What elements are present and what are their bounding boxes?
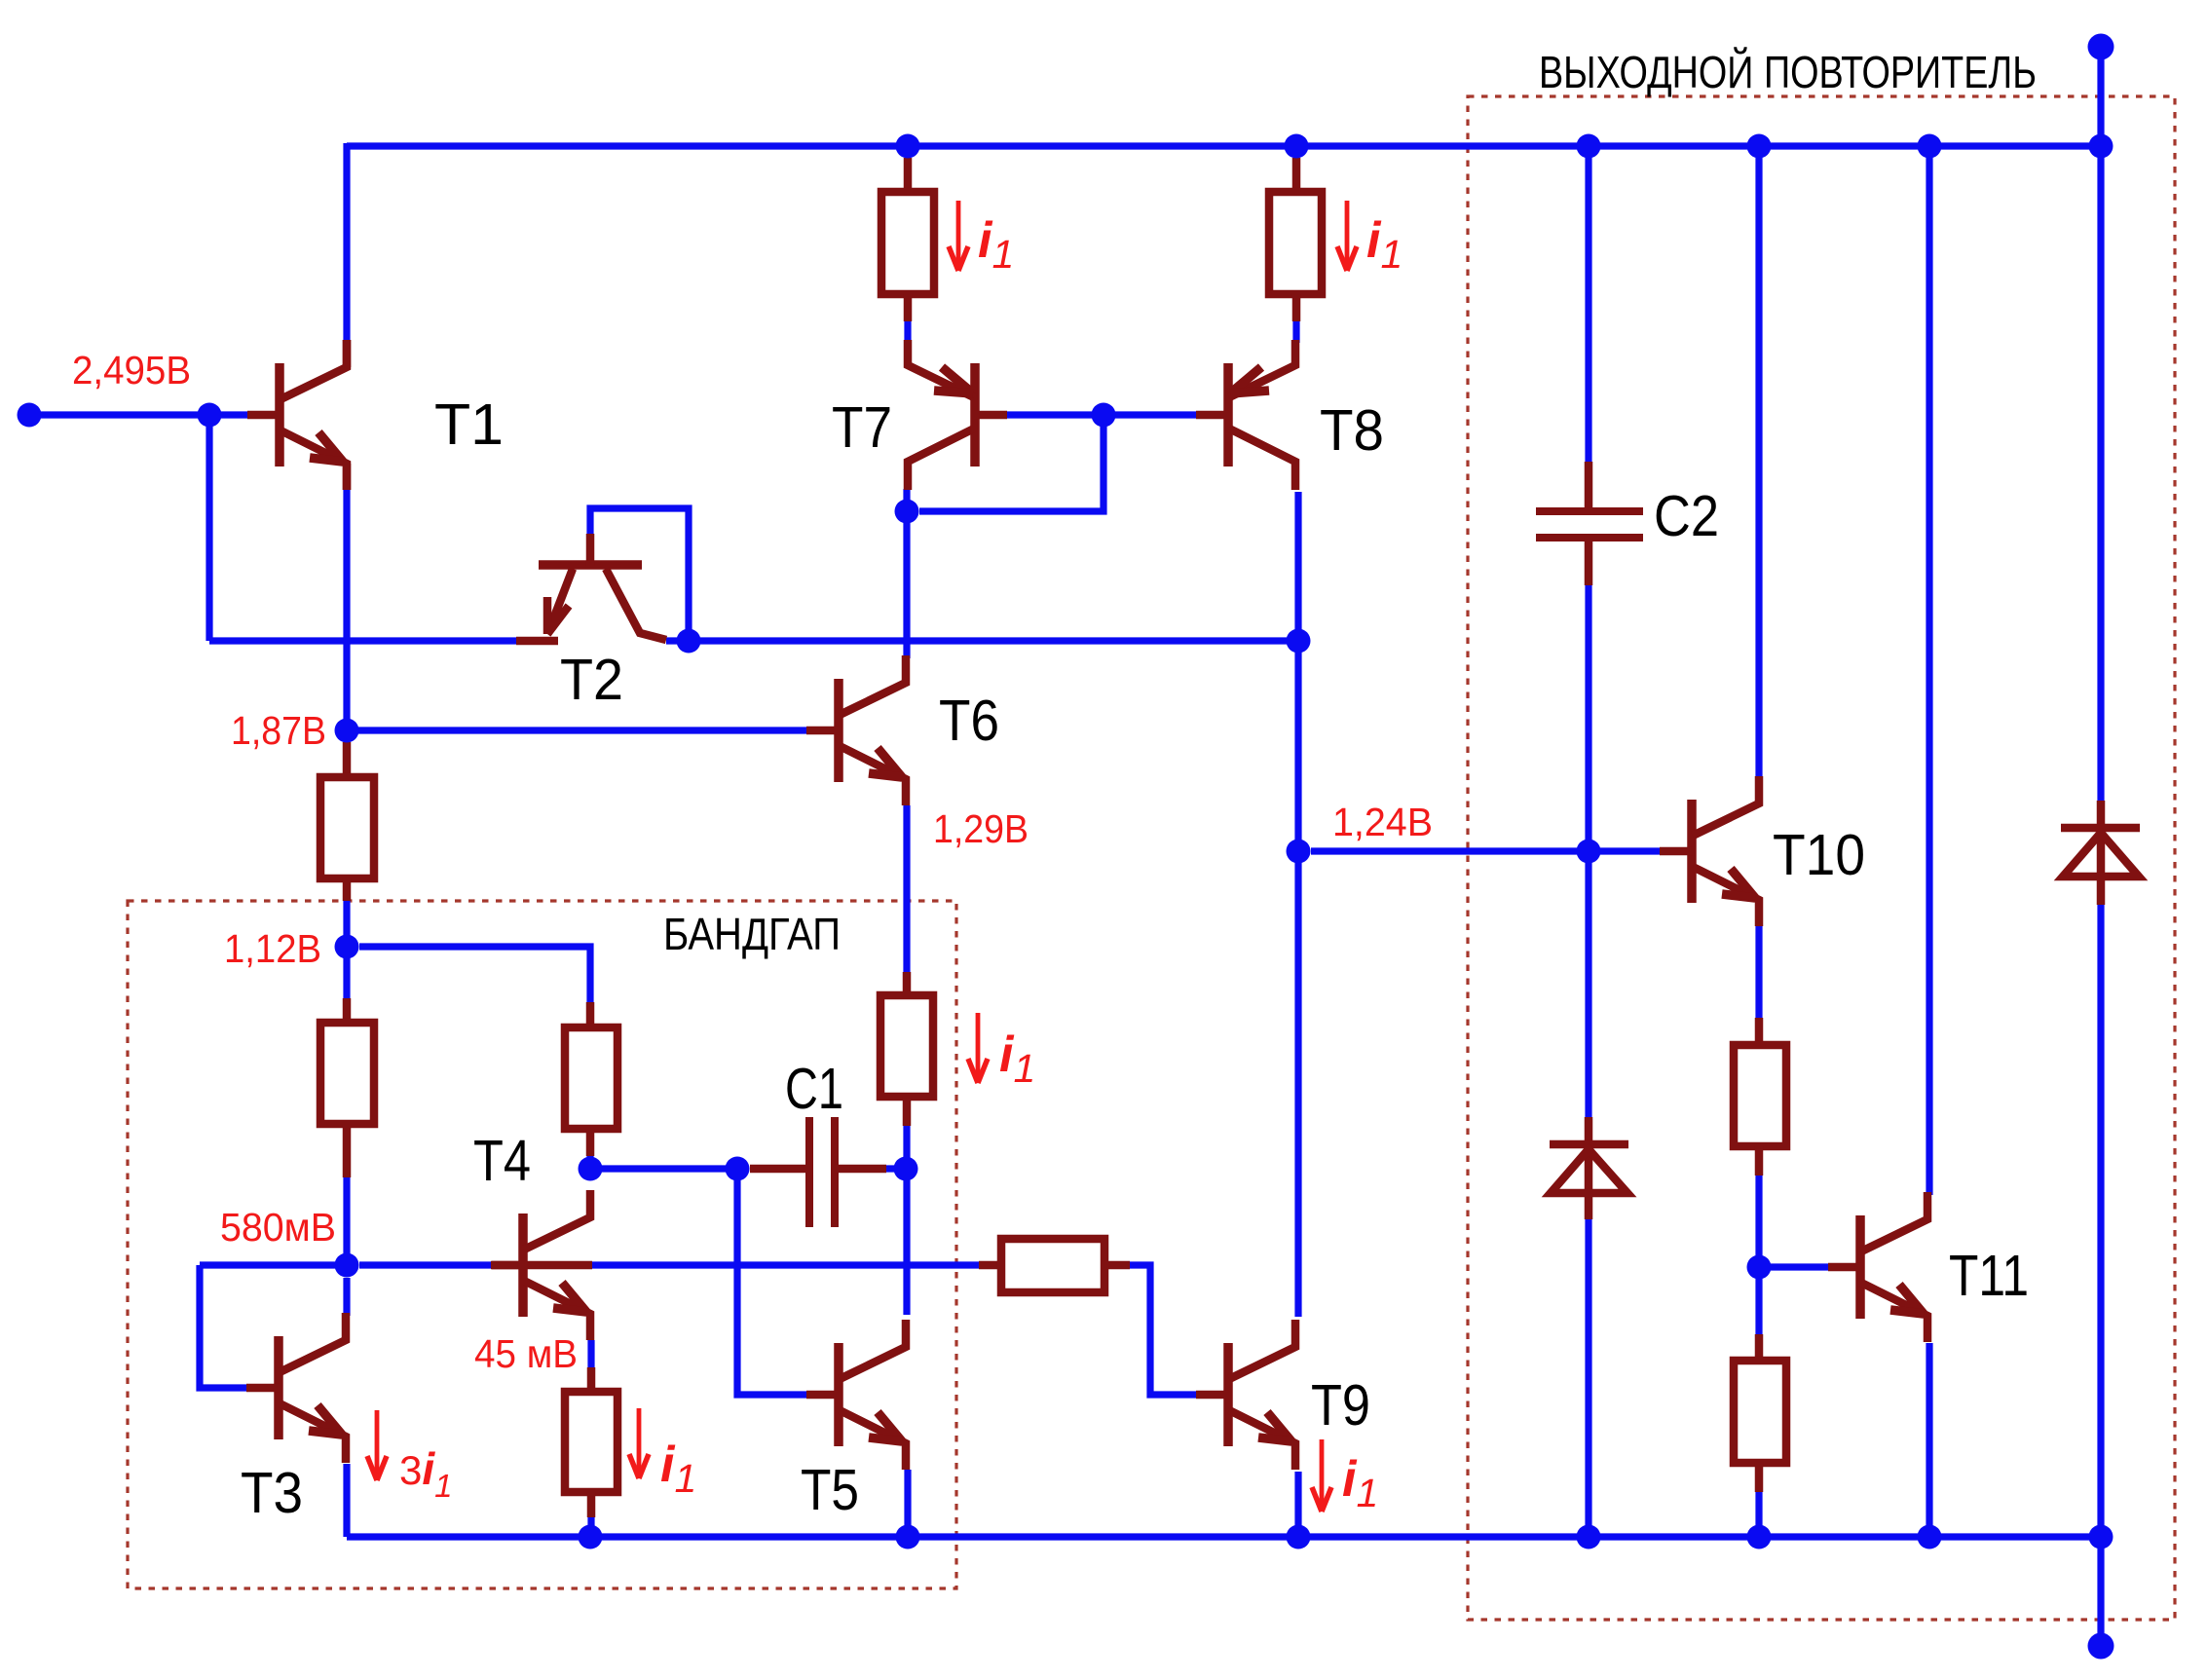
wire C2 branch upper — [1585, 146, 1591, 464]
wire mid rail left — [209, 637, 519, 644]
transistor T1 npn — [247, 340, 347, 490]
svg-text:2,495В: 2,495В — [72, 348, 191, 392]
wire T10 collector riser — [1755, 146, 1762, 778]
svg-text:T8: T8 — [1320, 398, 1384, 463]
wire T11 collector riser — [1926, 146, 1932, 1195]
wire T7 collector to T6 — [903, 511, 910, 658]
resistor R2 — [343, 998, 352, 1023]
transistor T7 pnp — [908, 340, 1007, 490]
wire T11 base node to R10 — [1755, 1267, 1762, 1361]
wire horizontal resistor to T9 base — [1128, 1265, 1196, 1395]
wire bottom rail — [347, 1533, 2101, 1540]
svg-text:ВЫХОДНОЙ ПОВТОРИТЕЛЬ: ВЫХОДНОЙ ПОВТОРИТЕЛЬ — [1539, 47, 2037, 97]
wire T2 bracket — [590, 508, 689, 633]
wire right rail bottom — [2097, 903, 2104, 1646]
wire T3 emitter to bottom rail — [343, 1464, 350, 1537]
svg-text:T4: T4 — [473, 1129, 531, 1193]
wire T5 collector — [903, 1169, 910, 1315]
svg-text:1,87В: 1,87В — [231, 708, 326, 753]
node dot T11 base — [1747, 1255, 1772, 1280]
svg-text:T5: T5 — [801, 1458, 859, 1522]
wire T5 emitter to bottom rail — [904, 1470, 911, 1537]
svg-text:C2: C2 — [1654, 484, 1719, 548]
wire top supply rail — [347, 142, 2101, 149]
node dot bottom rail x1631 — [1577, 1525, 1601, 1549]
node dot C2/1.24V — [1577, 840, 1601, 864]
svg-text:1,24В: 1,24В — [1332, 800, 1433, 844]
svg-text:T3: T3 — [241, 1461, 303, 1525]
node dot top rail x1631 — [1577, 134, 1601, 159]
node dot bottom rail x2157 — [2089, 1525, 2113, 1549]
T1 collector/emitter verticals dark red — [343, 340, 352, 367]
wire T2 emitter lead — [515, 637, 522, 644]
wire T2 to T8 collector node — [666, 637, 1298, 644]
svg-text:C1: C1 — [785, 1057, 843, 1121]
wire 580mV node left — [200, 1261, 347, 1268]
wire T3 base bracket — [200, 1265, 247, 1388]
resistor R5 — [903, 972, 912, 995]
node dot top rail x1806 — [1747, 134, 1772, 159]
wire T4 collector node to C1 node — [590, 1165, 737, 1172]
wire R1 to 1.12V node — [343, 901, 350, 947]
wire T1 emitter to 1.87V node — [343, 488, 350, 730]
wire right rail top — [2097, 47, 2104, 803]
wire base link to diode connection — [919, 415, 1103, 511]
terminal dot top right — [2088, 34, 2114, 60]
T4 base through-bar stub — [492, 1261, 592, 1270]
current arrow i1 at T9 — [1320, 1439, 1325, 1506]
wire T8 node down to 1.24V node — [1294, 641, 1301, 851]
resistor R3 — [586, 1002, 595, 1027]
transistor T6 npn — [806, 655, 906, 805]
wire T4 emitter to R4 — [587, 1340, 594, 1367]
node dot bottom rail x606 — [579, 1525, 603, 1549]
node dot bottom rail x1806 — [1747, 1525, 1772, 1549]
transistor T5 npn — [806, 1320, 906, 1470]
output follower region dashed box — [1468, 96, 2175, 1620]
wire 1.24V to diode D1 — [1585, 851, 1591, 1119]
node dot C1 left — [726, 1157, 750, 1181]
wire input to mid rail riser — [206, 415, 212, 641]
wire T4 to horizontal resistor — [590, 1261, 981, 1268]
svg-text:45 мВ: 45 мВ — [474, 1331, 578, 1376]
wire 1.24V node down to T9 collector — [1294, 851, 1301, 1317]
node dot bottom rail x1981 — [1918, 1525, 1942, 1549]
wire T6 emitter chain — [903, 805, 910, 974]
svg-text:T1: T1 — [434, 392, 504, 457]
wire T8 collector drop — [1294, 492, 1301, 641]
node dot bottom rail x932 — [896, 1525, 920, 1549]
bandgap region dashed box — [128, 901, 956, 1588]
resistor R10 — [1755, 1334, 1764, 1361]
resistor R4 — [587, 1367, 596, 1392]
transistor T3 npn — [246, 1313, 346, 1463]
node dot 1.12V — [335, 935, 359, 959]
node dot top rail x1331 — [1285, 134, 1309, 159]
wire T10 emitter to R9 — [1755, 925, 1762, 1018]
node dot 1.87V — [335, 719, 359, 743]
node dot 580mV — [335, 1253, 359, 1278]
node dot C1 right — [894, 1157, 918, 1181]
wire T7 collector node — [903, 489, 910, 511]
wire T9 emitter to bottom rail — [1294, 1472, 1301, 1537]
wire R3 to T4 collector node — [586, 1154, 593, 1169]
node dot T4 collector — [579, 1157, 603, 1181]
wire 1.87V node to T6 base — [347, 727, 806, 733]
current arrow i1 at R4 — [637, 1408, 642, 1473]
transistor T9 npn — [1196, 1320, 1295, 1470]
transistor T10 npn — [1660, 776, 1759, 926]
svg-text:БАНДГАП: БАНДГАП — [663, 909, 841, 959]
svg-text:T2: T2 — [560, 648, 623, 712]
wire input lead — [29, 411, 247, 418]
wire T11 base node to T11 — [1759, 1263, 1830, 1270]
svg-text:1,12В: 1,12В — [224, 926, 321, 971]
current arrow i1 at R8 — [1345, 201, 1350, 265]
node dot bottom rail x1333 — [1287, 1525, 1311, 1549]
wire D1 to bottom rail — [1585, 1217, 1591, 1537]
svg-text:1,29В: 1,29В — [933, 806, 1029, 851]
resistor R1 — [343, 742, 352, 777]
wire T7 T8 base link — [1006, 411, 1197, 418]
wire R4 to bottom rail — [587, 1516, 594, 1537]
node dot T8 collector — [1287, 629, 1311, 653]
node dot 1.24V — [1287, 840, 1311, 864]
wire 1.12V node to R3 corner — [359, 947, 590, 1002]
resistor R8 — [1292, 158, 1301, 192]
wire C1 node down to T5 base — [737, 1169, 806, 1395]
diode D2 — [2061, 801, 2140, 905]
wire 1.87V node to R1 — [343, 730, 350, 752]
wire R9 to T11 base node — [1755, 1174, 1762, 1267]
wire R8 to T8 emitter — [1292, 319, 1299, 343]
node dot top rail x1981 — [1918, 134, 1942, 159]
svg-text:T9: T9 — [1311, 1373, 1370, 1437]
resistor R9 — [1755, 1018, 1764, 1045]
current arrow 3i1 at T3 — [375, 1410, 380, 1475]
node dot T7 collector — [895, 500, 919, 524]
node dot top rail x932 — [896, 134, 920, 159]
resistor R7 — [904, 158, 913, 192]
current arrow i1 at R5 — [976, 1013, 981, 1077]
svg-text:T7: T7 — [832, 395, 892, 460]
transistor T2 pnp rotated — [516, 534, 666, 641]
wire 1.12V node down to 580mV node — [343, 947, 350, 1265]
resistor R6 horizontal — [979, 1261, 1001, 1270]
transistor T4 npn — [491, 1190, 590, 1340]
transistor T11 npn — [1828, 1192, 1927, 1342]
svg-text:T10: T10 — [1773, 823, 1865, 887]
terminal dot input — [18, 403, 42, 428]
svg-text:580мВ: 580мВ — [220, 1205, 336, 1250]
current arrow i1 at R7 — [956, 201, 961, 265]
wire T1 collector riser — [343, 143, 350, 340]
wire C2 to 1.24V wire — [1585, 583, 1591, 851]
wire R5 to C1 node — [903, 1124, 910, 1169]
svg-text:T11: T11 — [1949, 1244, 2029, 1308]
node dot T2 — [677, 629, 701, 653]
svg-text:T6: T6 — [939, 689, 999, 753]
terminal dot bottom right — [2088, 1633, 2114, 1660]
wire R10 to bottom rail — [1755, 1490, 1762, 1537]
diode D1 — [1550, 1117, 1628, 1219]
wire R7 to T7 emitter — [904, 319, 911, 343]
wire 580mV node to T4 base — [359, 1261, 494, 1268]
node dot input/T1 — [198, 403, 222, 428]
capacitor C1 — [750, 1165, 809, 1174]
wire T3 collector — [343, 1278, 350, 1316]
wire T11 emitter to bottom rail — [1926, 1343, 1932, 1537]
wire C1 right to T5 collector node — [884, 1165, 906, 1172]
wire 1.24V node to T10 base — [1311, 847, 1661, 854]
node dot top rail x2157 — [2089, 134, 2113, 159]
capacitor C2 — [1585, 462, 1593, 511]
node dot T7/T8 bases — [1092, 403, 1116, 428]
transistor T8 pnp — [1196, 340, 1295, 490]
